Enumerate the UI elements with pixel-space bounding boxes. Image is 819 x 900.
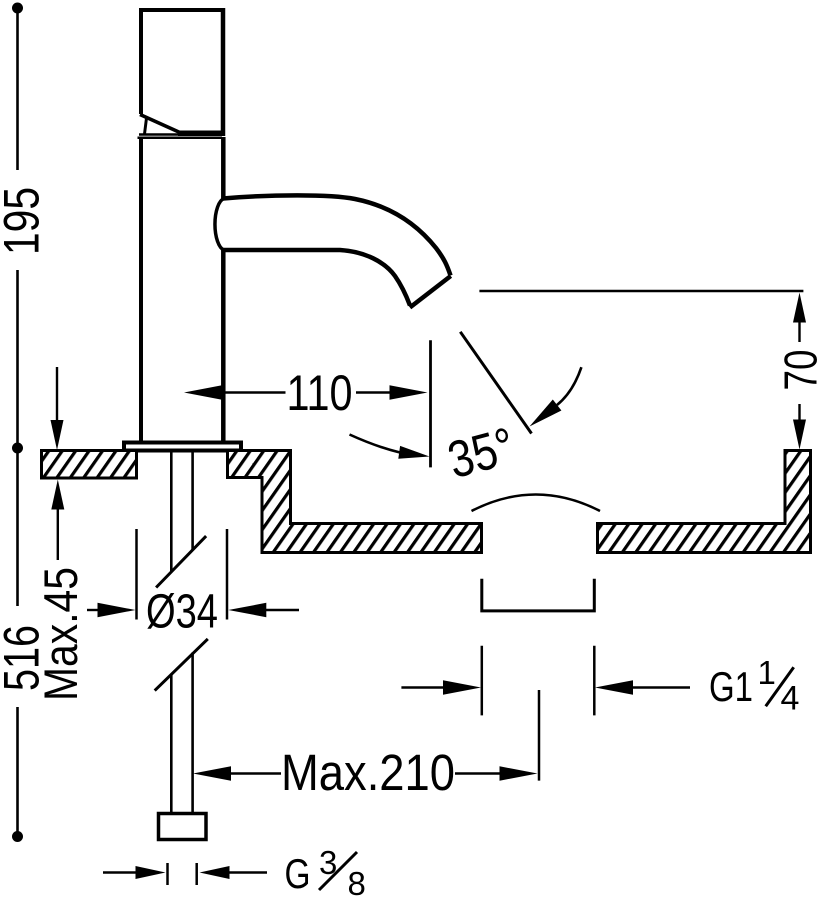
faucet body right edge upper [221,137,226,199]
dimension G1-1/4 left arrow [401,680,481,694]
dimension G1-1/4 extension lines [482,646,595,716]
svg-text:8: 8 [348,865,366,900]
svg-text:Max.210: Max.210 [281,744,455,801]
dimension 70 top arrow [793,293,806,343]
dimension Max.45 down arrow [51,367,64,450]
dimension O34 left arrow [87,603,136,617]
dimension 110 left arrow [184,385,222,399]
spout outlet face [410,276,451,308]
drain cup [482,579,595,611]
dimension O34 right arrow [228,603,299,617]
spout back cap [215,199,224,251]
nut [159,814,207,840]
dimension 195 dots [12,3,23,454]
label G1-1/4 text [709,654,799,718]
faucet handle bottom bar [178,131,225,137]
basin arc [472,495,601,512]
faucet handle outline [139,8,225,136]
dimension Max.210 extension line [538,690,541,781]
supply rod upper [171,452,192,572]
dimension Max.210 line [222,772,509,774]
svg-text:1: 1 [758,654,776,691]
svg-text:4: 4 [781,680,800,718]
spout bottom curve [223,250,410,306]
angle 35 right arc arrow [530,367,582,426]
svg-text:G: G [285,850,311,897]
svg-text:G1: G1 [709,663,753,710]
dimension G3/8 right arrow [200,866,268,879]
counter right piece [598,451,811,553]
outlet axis line [429,340,432,467]
counter left slab [42,451,137,479]
spout top curve [223,195,451,275]
svg-text:195: 195 [0,187,50,255]
svg-text:Ø34: Ø34 [146,586,218,639]
faucet body right edge lower [221,250,226,441]
dimension 516 dot [12,831,23,842]
outlet level line [479,290,803,293]
dimension G3/8 extension lines [168,863,197,885]
faucet lever [139,115,181,135]
dimension 110 line [222,391,390,393]
base plate [124,443,241,451]
dimension 110 right arrow [390,385,428,399]
dimension 195 line [16,8,19,448]
dimension O34 extension lines [137,529,228,620]
counter basin step [228,451,482,553]
dimension G1-1/4 right arrow [595,680,690,694]
dimension Max.210 right arrow [500,766,538,780]
rod break slash upper [156,536,206,587]
faucet body joint line [138,137,223,140]
dimension Max.45 up arrow [51,480,64,561]
svg-text:Max.45: Max.45 [34,567,87,701]
dimension 516 line [16,448,19,837]
faucet body left edge [139,137,143,441]
angle 35 left arc arrow [350,435,430,459]
rod break slash lower [155,639,208,691]
svg-text:110: 110 [287,365,353,421]
dimension Max.210 left arrow [193,766,231,780]
35 degree line [460,332,531,434]
dimension G3/8 left arrow [103,866,166,879]
svg-text:70: 70 [775,350,819,391]
dimension 70 bottom arrow [793,404,806,450]
supply rod lower [171,653,192,813]
label G3/8 text [285,844,366,900]
